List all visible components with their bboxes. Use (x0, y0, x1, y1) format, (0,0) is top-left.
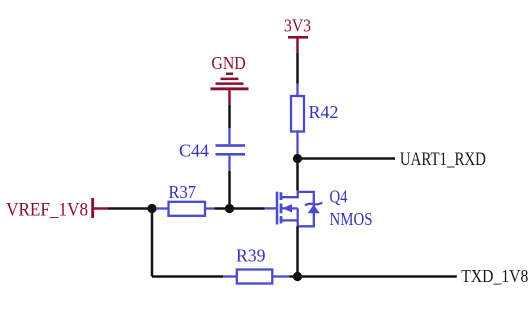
net label UART1_RXD (400, 149, 486, 170)
power 3V3 (284, 16, 311, 54)
node junction source/TXD (293, 272, 302, 281)
svg-text:R39: R39 (236, 246, 266, 266)
wire to TXD_1V8 (298, 275, 457, 278)
resistor R37 (156, 182, 215, 216)
svg-text:GND: GND (211, 53, 245, 73)
wire C44 to node (228, 171, 231, 209)
transistor Q4 NMOS (265, 186, 373, 229)
capacitor C44 (179, 128, 245, 171)
wire node down left (151, 209, 154, 277)
node junction R42/UART1_RXD (293, 154, 302, 163)
resistor R42 (291, 84, 339, 155)
svg-text:C44: C44 (179, 141, 209, 161)
wire bottom left (152, 275, 223, 278)
svg-text:R42: R42 (309, 102, 339, 122)
wire VREF to node (108, 207, 152, 210)
svg-text:NMOS: NMOS (330, 209, 373, 229)
node junction VREF/R37 (147, 204, 156, 213)
wire node to Q4 drain (296, 159, 299, 191)
svg-text:Q4: Q4 (330, 186, 348, 206)
svg-text:R37: R37 (169, 182, 197, 202)
svg-text:UART1_RXD: UART1_RXD (400, 149, 486, 170)
port VREF_1V8 (6, 198, 108, 220)
ground GND (211, 53, 249, 105)
wire GND to C44 (228, 105, 231, 128)
wire to UART1_RXD (298, 157, 396, 160)
wire node to R37 (152, 207, 157, 210)
net label TXD_1V8 (461, 266, 528, 286)
node junction C44/gate (225, 204, 234, 213)
svg-text:3V3: 3V3 (284, 16, 311, 36)
wire R39 to node (290, 275, 298, 278)
wire R37 to node (215, 207, 230, 210)
svg-text:TXD_1V8: TXD_1V8 (461, 266, 528, 286)
svg-text:VREF_1V8: VREF_1V8 (6, 199, 88, 220)
wire node to Q4 gate (230, 207, 265, 210)
resistor R39 (223, 246, 290, 284)
wire Q4 source down (296, 226, 299, 276)
wire 3V3 to R42 (296, 53, 299, 84)
